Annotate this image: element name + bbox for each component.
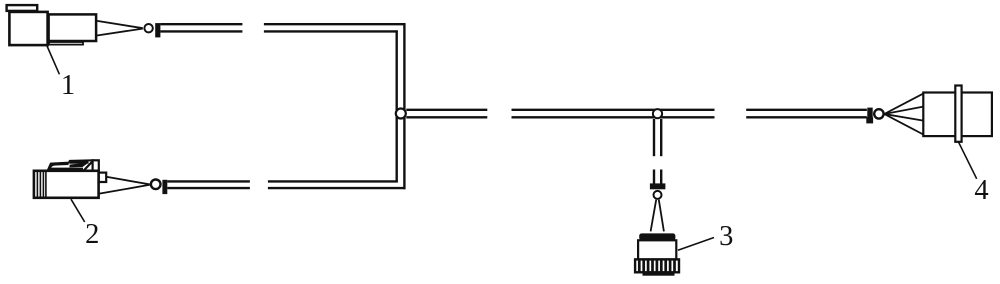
svg-text:4: 4: [974, 175, 988, 206]
svg-text:3: 3: [719, 221, 733, 252]
svg-text:1: 1: [61, 70, 75, 101]
svg-text:2: 2: [85, 219, 99, 250]
